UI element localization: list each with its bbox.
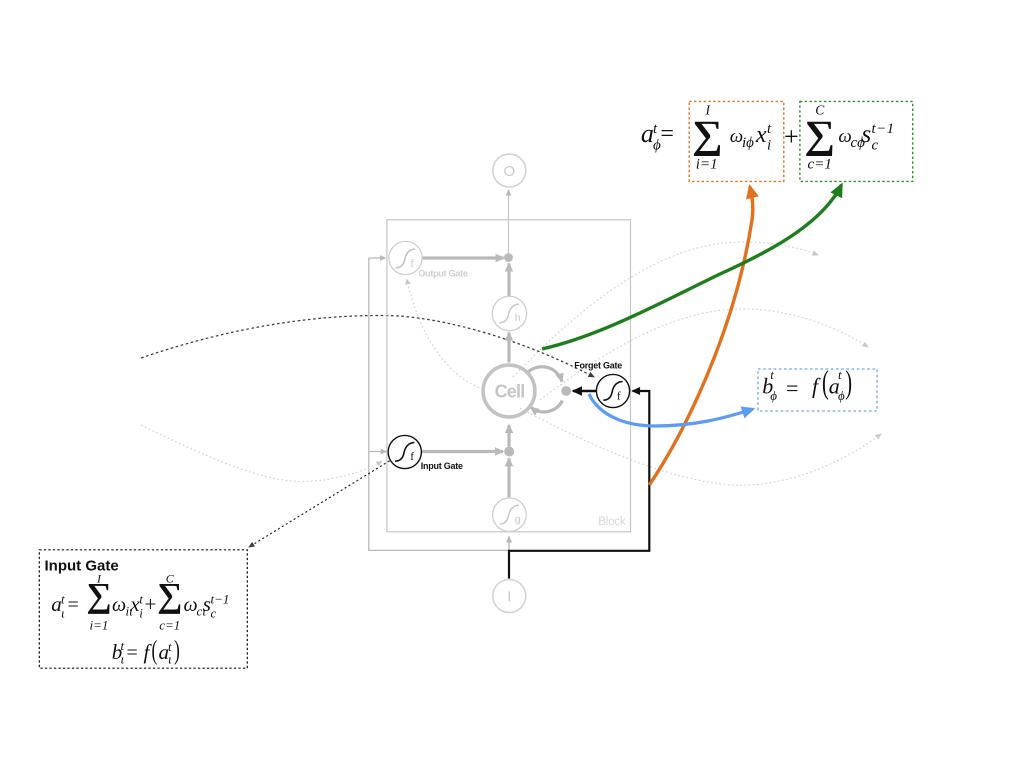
- svg-text:c: c: [872, 138, 879, 154]
- svg-text:c=1: c=1: [159, 618, 180, 633]
- svg-text:(: (: [822, 364, 829, 400]
- svg-text:i=1: i=1: [696, 157, 718, 173]
- svg-text:(: (: [152, 635, 158, 665]
- svg-text:C: C: [815, 102, 825, 117]
- svg-text:i: i: [767, 138, 771, 154]
- svg-text:∑: ∑: [692, 112, 723, 156]
- svg-text:O: O: [503, 163, 515, 180]
- svg-text:Input Gate: Input Gate: [45, 558, 119, 575]
- svg-text:I: I: [507, 589, 511, 606]
- svg-text:=: =: [127, 642, 138, 664]
- svg-text:ι: ι: [168, 652, 172, 667]
- svg-text:ϕ: ϕ: [838, 388, 845, 403]
- svg-text:iϕ: iϕ: [742, 135, 754, 151]
- svg-text:=: =: [786, 375, 798, 400]
- svg-text:C: C: [166, 572, 175, 586]
- svg-text:h: h: [515, 312, 521, 324]
- svg-text:Output Gate: Output Gate: [418, 268, 467, 278]
- svg-text:t: t: [770, 367, 774, 382]
- svg-text:∑: ∑: [804, 112, 835, 156]
- svg-text:): ): [174, 635, 180, 665]
- svg-text:g: g: [515, 513, 521, 525]
- svg-text:t: t: [653, 121, 658, 137]
- svg-text:ω: ω: [184, 594, 198, 616]
- svg-text:ι: ι: [121, 652, 125, 667]
- svg-text:+: +: [145, 592, 157, 616]
- svg-text:f: f: [410, 451, 414, 463]
- svg-text:a: a: [641, 119, 654, 148]
- svg-text:f: f: [410, 258, 414, 270]
- svg-text:Cell: Cell: [495, 382, 525, 402]
- svg-text:c: c: [211, 606, 217, 621]
- svg-text:Forget Gate: Forget Gate: [574, 360, 622, 370]
- svg-text:t−1: t−1: [211, 592, 230, 607]
- svg-text:ϕ: ϕ: [770, 388, 777, 403]
- svg-text:ω: ω: [112, 594, 126, 616]
- svg-text:): ): [845, 364, 852, 400]
- svg-text:ι: ι: [61, 606, 65, 621]
- svg-text:=: =: [68, 594, 79, 616]
- svg-text:f: f: [812, 374, 821, 399]
- svg-text:i=1: i=1: [90, 618, 109, 633]
- svg-text:t: t: [61, 592, 65, 607]
- svg-text:x: x: [755, 122, 767, 148]
- svg-text:f: f: [617, 390, 621, 402]
- svg-text:c=1: c=1: [808, 157, 832, 173]
- svg-text:s: s: [862, 121, 872, 148]
- svg-text:=: =: [660, 121, 674, 147]
- svg-text:Block: Block: [598, 516, 626, 528]
- svg-text:i: i: [139, 606, 143, 621]
- svg-text:Input Gate: Input Gate: [421, 461, 463, 471]
- svg-text:t: t: [139, 592, 143, 607]
- svg-text:t−1: t−1: [872, 121, 895, 137]
- svg-text:t: t: [838, 367, 842, 382]
- svg-text:+: +: [784, 122, 799, 151]
- svg-text:t: t: [767, 121, 772, 137]
